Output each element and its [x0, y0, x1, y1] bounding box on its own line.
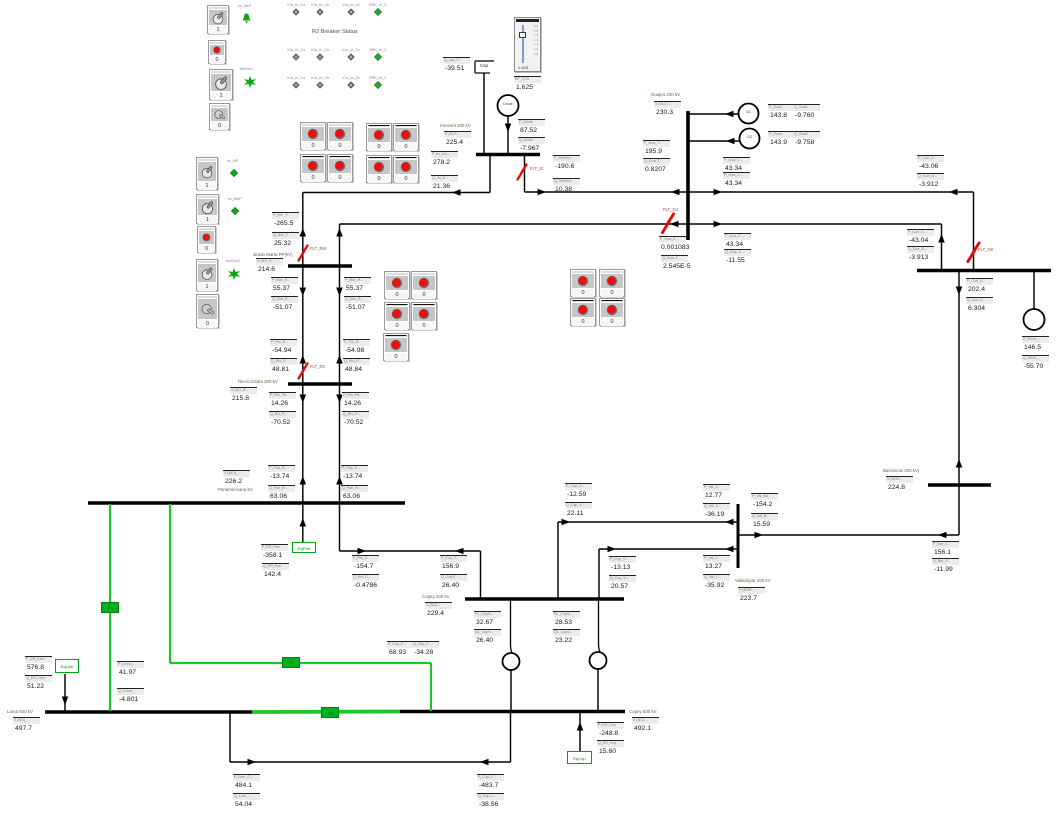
- svg-text:V1a_br_Cc: V1a_br_Cc: [342, 48, 360, 52]
- svg-text:BRK_br_C: BRK_br_C: [369, 3, 387, 7]
- svg-text:V1a_br_Ca: V1a_br_Ca: [287, 76, 305, 80]
- svg-text:V1a_br_Ca: V1a_br_Ca: [287, 48, 305, 52]
- svg-text:V1a_br_Cb: V1a_br_Cb: [311, 3, 329, 7]
- svg-text:V1a_br_Cb: V1a_br_Cb: [311, 76, 329, 80]
- svg-text:V1a_br_Cb: V1a_br_Cb: [311, 48, 329, 52]
- svg-text:BRK_br_C: BRK_br_C: [369, 76, 387, 80]
- svg-text:V1a_br_Cc: V1a_br_Cc: [342, 76, 360, 80]
- svg-text:V1a_br_Cc: V1a_br_Cc: [342, 3, 360, 7]
- svg-text:V1a_br_Ca: V1a_br_Ca: [287, 3, 305, 7]
- svg-text:BRK_br_C: BRK_br_C: [369, 48, 387, 52]
